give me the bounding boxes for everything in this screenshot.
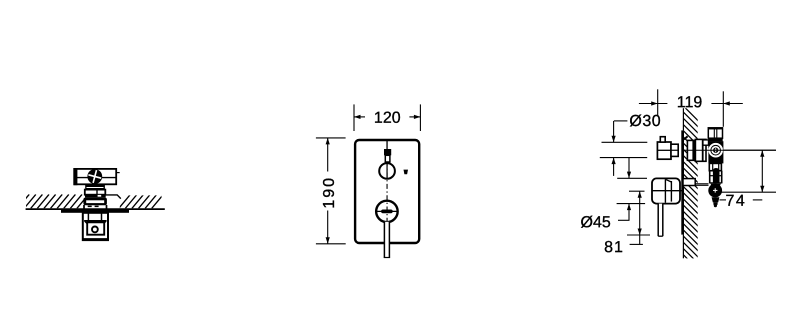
svg-text:120: 120 <box>374 110 401 127</box>
dimension 119 right arrow <box>711 103 742 105</box>
O45 leader <box>618 219 630 221</box>
body bottom thick line <box>83 238 108 240</box>
escutcheon flange <box>61 210 129 213</box>
cartridge big ring <box>695 139 706 161</box>
trim plate <box>355 140 419 243</box>
svg-text:Ø30: Ø30 <box>629 113 661 130</box>
wall notch step line right of valve <box>106 195 121 199</box>
dimension 74 bottom extension line <box>722 191 777 193</box>
lever bar right end tick <box>116 172 120 174</box>
dimension 190 line with arrows <box>327 138 329 172</box>
wall surface line <box>26 208 165 210</box>
dimension 74 line with arrows <box>761 150 763 192</box>
dimension 74 top extension line <box>724 149 776 151</box>
svg-text:190: 190 <box>321 176 338 209</box>
O45 upper arrow <box>628 158 630 179</box>
trim plate (side) <box>681 130 684 234</box>
cartridge side edges down to wall <box>83 205 85 209</box>
lower port nut below <box>712 197 720 202</box>
diverter knob neck <box>671 144 678 156</box>
valve elbow piece <box>703 140 709 145</box>
diverter knob (side) <box>657 142 671 159</box>
dimension 120 right arrow <box>409 116 420 118</box>
dimension 120 left arrow <box>354 116 365 118</box>
dimension 81 bottom line <box>627 234 650 236</box>
lever bar mid line <box>74 177 116 179</box>
wall hatching left of valve <box>18 194 89 208</box>
wall hatching <box>680 103 701 273</box>
lever bar left end cap <box>74 168 78 185</box>
dimension 119 right extension line <box>722 91 724 127</box>
dimension 81 centre extension line <box>629 190 645 192</box>
lever hub (side) <box>652 178 680 203</box>
handle screw (black circle with cross) <box>87 169 102 184</box>
dimension 119 left arrow <box>639 103 668 105</box>
dimension 190 top tick <box>316 137 346 139</box>
body inner box <box>87 222 104 234</box>
svg-text:119: 119 <box>677 94 703 111</box>
lower port nut above <box>711 184 721 187</box>
lever hub black bar <box>381 210 393 214</box>
dimension 119 left extension line <box>657 89 659 115</box>
valve axis centerline <box>657 149 678 151</box>
lever stem through wall <box>683 179 695 186</box>
valve side port rings <box>709 144 722 157</box>
valve neck white band <box>85 190 106 195</box>
wall edge above plate <box>682 108 684 130</box>
valve neck dark band 1 <box>85 185 105 190</box>
diverter knob top button <box>660 137 665 142</box>
lever (pointing down) <box>384 222 389 258</box>
diverter button (black) <box>384 149 391 155</box>
O45 lower extension line <box>617 203 646 205</box>
lever hub horizontal centerline <box>376 210 397 212</box>
body shoulder line <box>84 220 107 222</box>
small dashes under cartridge <box>88 206 92 208</box>
plate vertical centerline (dash-dot) <box>386 140 388 151</box>
lever bar (pointing down) <box>658 204 663 237</box>
valve axis centerline through body <box>684 149 776 151</box>
81 leader <box>630 243 643 245</box>
svg-text:Ø45: Ø45 <box>581 214 611 231</box>
O45 lower arrow <box>628 204 630 221</box>
lower port (black circle) <box>708 184 722 198</box>
O30 extension lines <box>602 141 648 143</box>
cartridge body <box>687 140 695 160</box>
svg-text:81: 81 <box>604 239 624 256</box>
O30 leader <box>614 120 627 122</box>
wall hatching right of valve <box>119 194 164 208</box>
shoulder chamfers <box>85 221 88 224</box>
body small circle <box>92 227 98 233</box>
valve lower dark blob <box>713 168 720 184</box>
dimension 120 extension line right <box>419 104 421 131</box>
cartridge wedge <box>684 136 688 139</box>
O45 upper extension line <box>617 177 647 179</box>
body upper inner lines <box>87 213 89 221</box>
74 leader stubs <box>720 199 727 201</box>
dimension 81 line with arrows <box>639 191 641 244</box>
cartridge in wall (black box with slot) <box>83 198 107 206</box>
diverter stem <box>385 155 390 162</box>
dimension 120 extension line left <box>353 104 355 131</box>
brand logo mark <box>404 170 409 175</box>
dimension 190 bottom tick <box>316 243 346 245</box>
lever handle bar (top view) <box>74 169 116 184</box>
O30 lower arrow <box>613 158 615 176</box>
valve body below flange <box>83 213 108 240</box>
valve top fitting <box>708 128 722 138</box>
diverter knob circle <box>379 163 395 179</box>
valve top black band <box>708 138 722 141</box>
valve block (black) <box>708 141 723 163</box>
valve lower pipe <box>709 163 721 170</box>
valve neck dark band 2 <box>85 194 106 197</box>
svg-text:74: 74 <box>725 193 746 210</box>
wall edge below plate <box>682 235 684 259</box>
lever hub circle <box>376 201 398 223</box>
